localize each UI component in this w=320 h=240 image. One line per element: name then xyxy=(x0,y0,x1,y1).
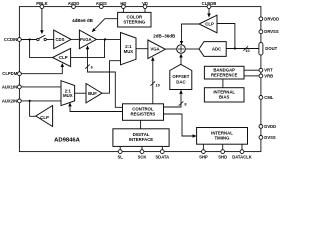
svg-text:MUX: MUX xyxy=(124,49,134,54)
svg-text:DVDD: DVDD xyxy=(264,124,276,129)
svg-text:ADC: ADC xyxy=(212,47,221,52)
svg-text:CDS: CDS xyxy=(55,37,64,42)
svg-text:TIMING: TIMING xyxy=(214,135,230,140)
svg-text:CML: CML xyxy=(264,95,274,100)
svg-text:SHP: SHP xyxy=(199,155,208,160)
svg-text:DRVSS: DRVSS xyxy=(264,29,279,34)
svg-text:CLPDM: CLPDM xyxy=(2,71,17,76)
svg-text:10: 10 xyxy=(156,82,160,87)
svg-text:VRB: VRB xyxy=(264,73,273,78)
svg-text:SDATA: SDATA xyxy=(155,155,169,160)
svg-text:HD: HD xyxy=(120,1,126,6)
svg-text:CLPOB: CLPOB xyxy=(202,1,217,6)
svg-text:CLP: CLP xyxy=(205,22,214,27)
svg-text:2dB–36dB: 2dB–36dB xyxy=(153,34,176,39)
svg-text:CLP: CLP xyxy=(40,115,49,120)
svg-text:10: 10 xyxy=(245,48,249,53)
svg-text:CCDIN: CCDIN xyxy=(4,37,17,42)
svg-text:BUF: BUF xyxy=(88,91,97,96)
svg-text:STEERING: STEERING xyxy=(123,20,146,25)
svg-text:VD: VD xyxy=(142,1,148,6)
svg-text:4dB±6 dB: 4dB±6 dB xyxy=(72,18,93,23)
svg-text:REGISTERS: REGISTERS xyxy=(130,111,155,116)
svg-text:INTERFACE: INTERFACE xyxy=(129,137,153,142)
svg-text:BIAS: BIAS xyxy=(219,94,229,99)
svg-text:DAC: DAC xyxy=(176,79,185,84)
svg-text:SL: SL xyxy=(118,155,124,160)
svg-text:PxGA: PxGA xyxy=(80,37,92,42)
svg-text:DOUT: DOUT xyxy=(265,46,277,51)
svg-text:VRT: VRT xyxy=(264,68,273,73)
svg-text:MUX: MUX xyxy=(63,93,73,98)
svg-text:DVSS: DVSS xyxy=(264,135,276,140)
svg-text:SCK: SCK xyxy=(138,155,147,160)
svg-text:DRVDD: DRVDD xyxy=(264,16,279,21)
svg-text:DATACLK: DATACLK xyxy=(232,155,252,160)
svg-text:CLP: CLP xyxy=(59,55,68,60)
svg-text:REFERENCE: REFERENCE xyxy=(211,73,238,78)
svg-text:AVSS: AVSS xyxy=(96,1,107,6)
svg-text:SHD: SHD xyxy=(218,155,227,160)
svg-text:PBLK: PBLK xyxy=(36,1,47,6)
svg-text:VGA: VGA xyxy=(150,47,159,52)
svg-text:AUX1IN: AUX1IN xyxy=(2,84,17,89)
svg-text:AD9846A: AD9846A xyxy=(54,138,81,144)
svg-text:AVDD: AVDD xyxy=(68,1,80,6)
svg-text:AUX2IN: AUX2IN xyxy=(2,98,17,103)
